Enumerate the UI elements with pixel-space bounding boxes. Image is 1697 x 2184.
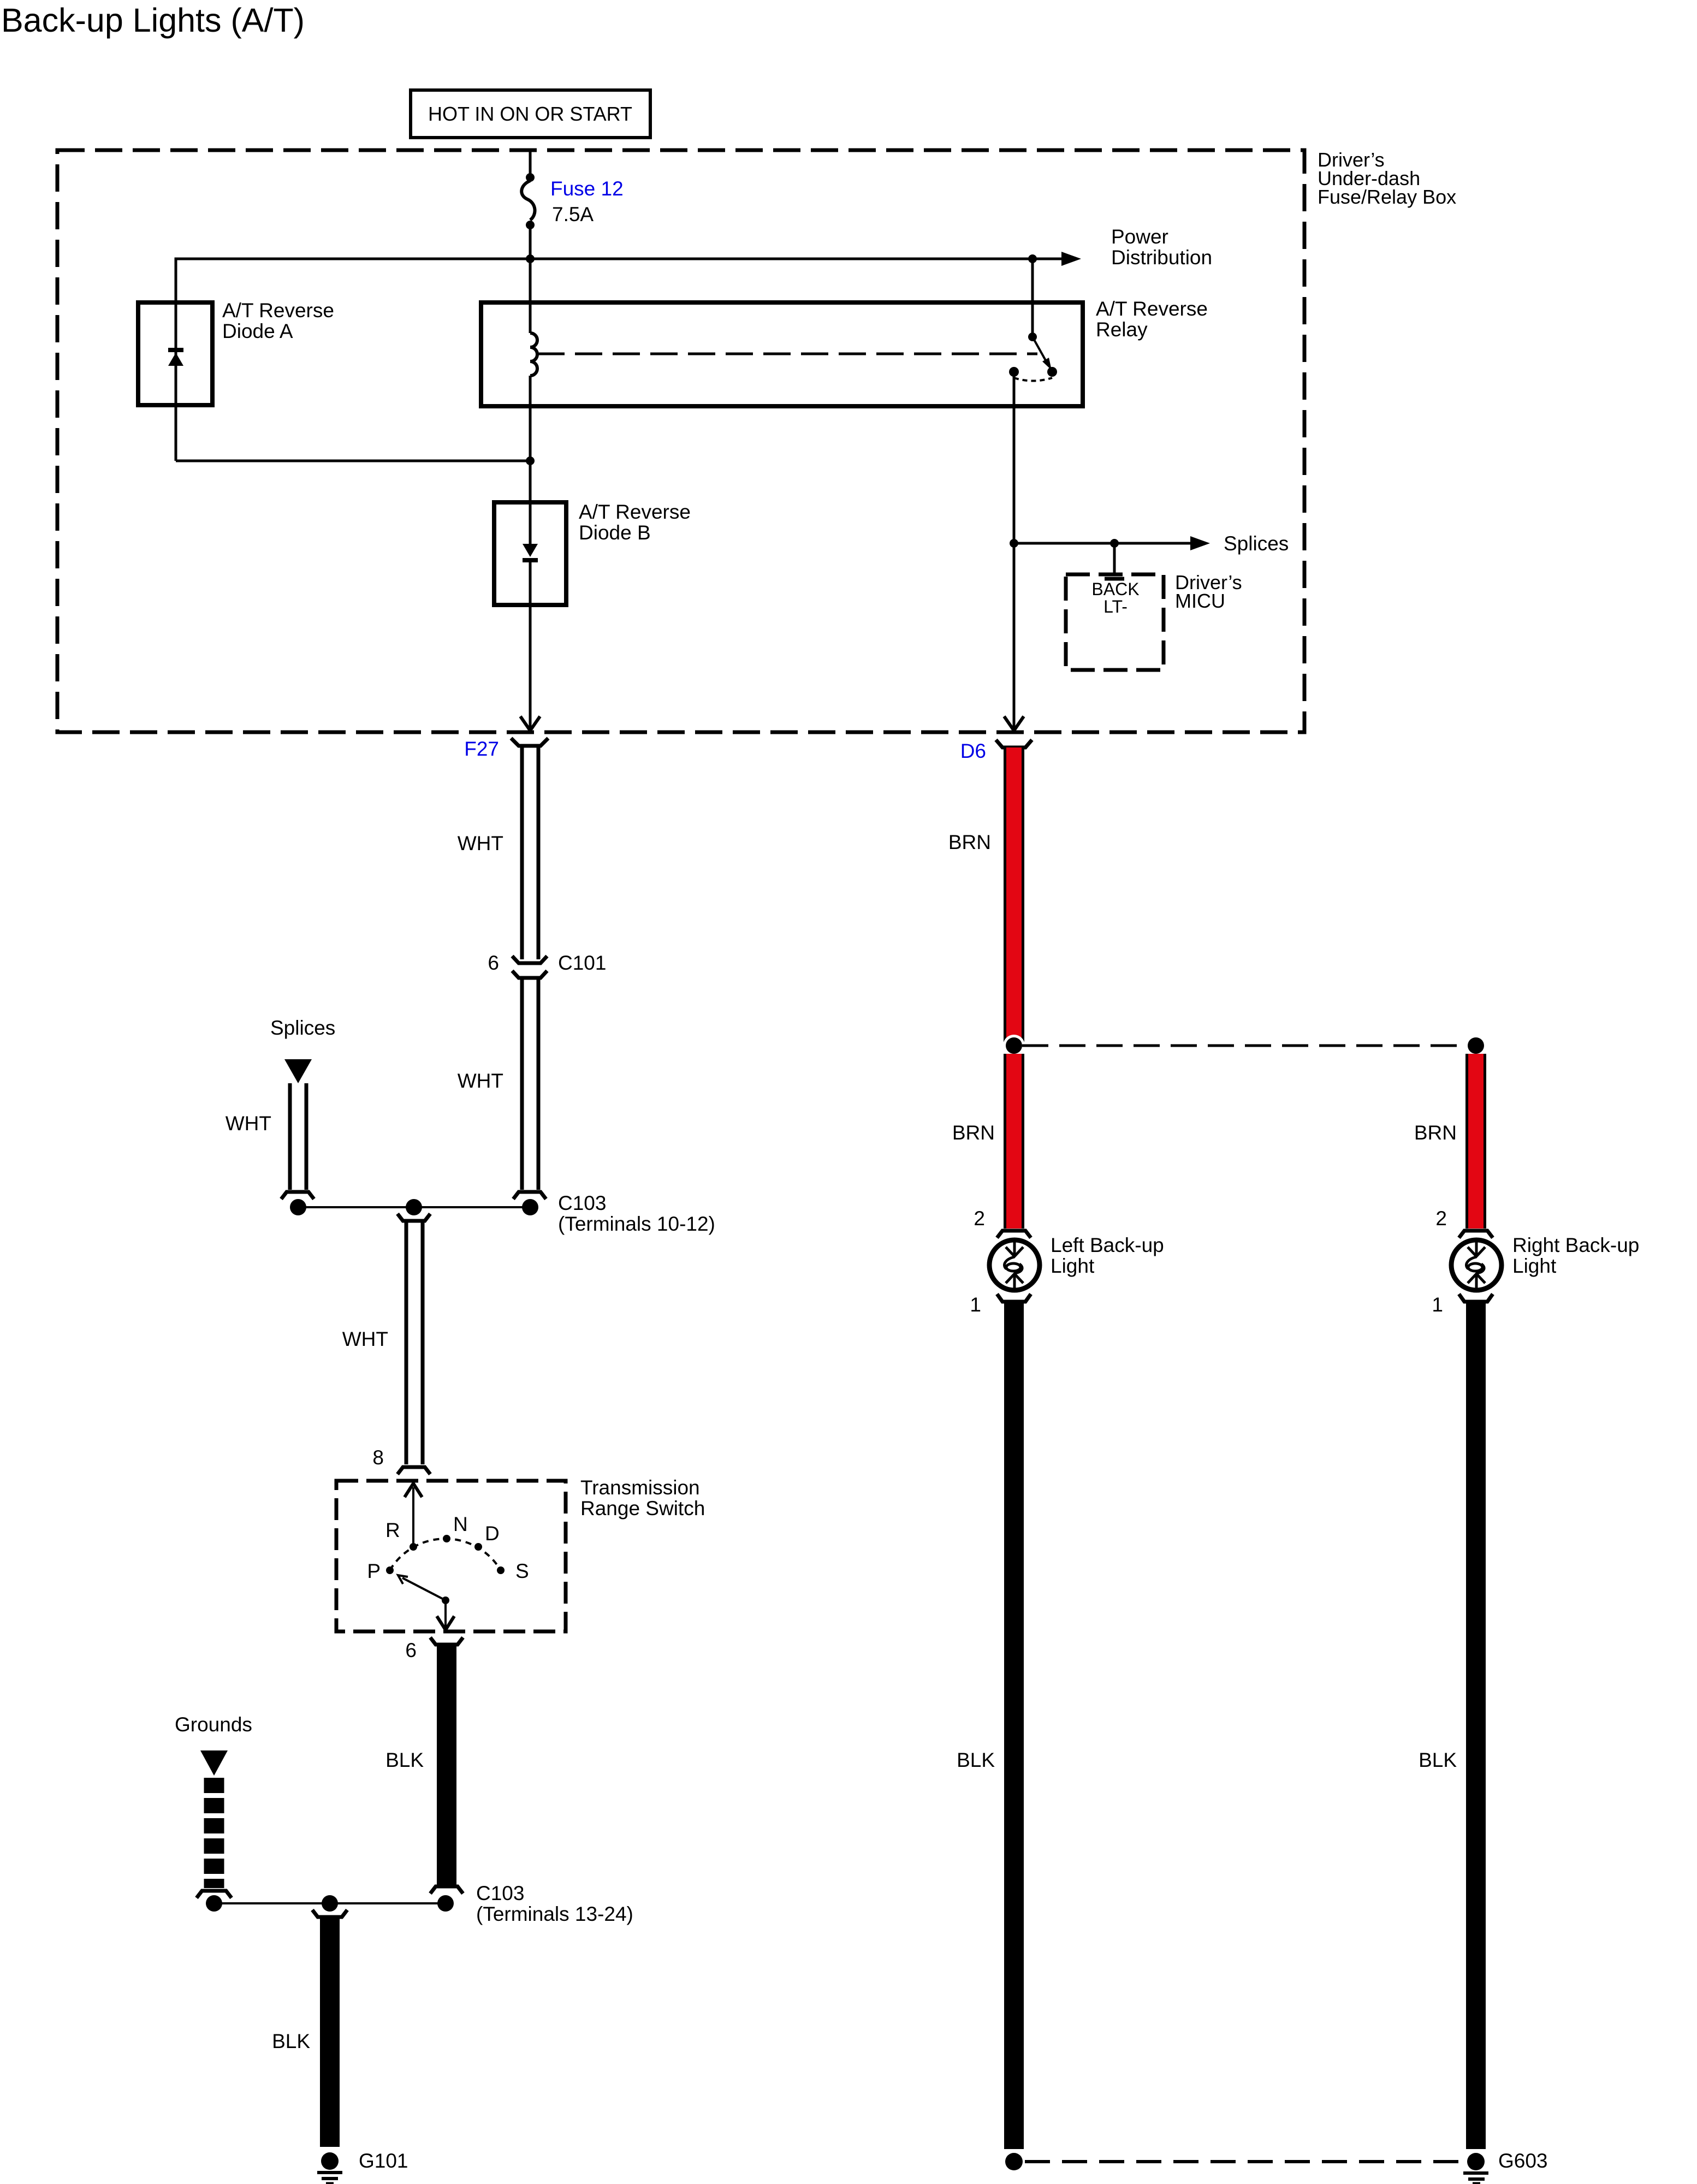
wire BLK right light to ground [1466, 1302, 1486, 2149]
svg-text:F27: F27 [464, 738, 499, 760]
relay coil [530, 333, 537, 376]
svg-text:8: 8 [372, 1446, 384, 1469]
connector F27 cap [511, 738, 548, 746]
left back-up light bulb [989, 1240, 1040, 1290]
connector cap left light bottom [997, 1294, 1031, 1302]
svg-text:Light: Light [1051, 1255, 1095, 1277]
switch detent dashed arc [390, 1539, 501, 1570]
svg-text:MICU: MICU [1175, 590, 1225, 612]
switch common down arrow [437, 1600, 454, 1630]
ground G603 [1463, 2150, 1488, 2183]
svg-text:Range Switch: Range Switch [580, 1497, 705, 1520]
svg-text:6: 6 [405, 1639, 417, 1661]
Driver's Under-dash Fuse/Relay Box (dashed box) [57, 150, 1304, 732]
svg-text:Distribution: Distribution [1111, 246, 1212, 269]
svg-text:WHT: WHT [342, 1328, 388, 1350]
A/T Reverse Diode B box [494, 502, 566, 605]
svg-text:N: N [453, 1513, 468, 1535]
label C103 (Terminals 13-24) [476, 1882, 633, 1925]
svg-text:1: 1 [970, 1293, 981, 1316]
node C103 left [290, 1199, 306, 1215]
dashed jumper to right light [1022, 1044, 1469, 1047]
ground G101 [317, 2152, 342, 2183]
svg-text:Fuse 12: Fuse 12 [550, 177, 624, 200]
svg-text:Right Back-up: Right Back-up [1512, 1234, 1639, 1256]
wire BLK to G101 [320, 1917, 340, 2147]
svg-text:BLK: BLK [1419, 1749, 1457, 1771]
wire C103 bus (terminals 10-12) [298, 1206, 530, 1208]
label Power Distribution [1111, 225, 1212, 269]
svg-text:A/T Reverse: A/T Reverse [222, 299, 334, 322]
svg-text:S: S [515, 1560, 529, 1582]
grounds arrow triangle [200, 1750, 228, 1776]
wire from HOT box into fuse box [529, 151, 532, 177]
svg-text:Back-up Lights (A/T): Back-up Lights (A/T) [1, 2, 305, 39]
connector pin 8 cap [397, 1467, 430, 1474]
dashed ground bus [1025, 2160, 1465, 2163]
label Driver's Under-dash Fuse/Relay Box [1318, 149, 1456, 208]
connector cap right light bottom [1459, 1294, 1493, 1302]
svg-text:A/T Reverse: A/T Reverse [579, 501, 691, 523]
connector cap right light top [1459, 1231, 1493, 1238]
svg-text:2: 2 [974, 1207, 985, 1230]
wire WHT F27 to C101 [522, 746, 538, 959]
svg-text:Fuse/Relay Box: Fuse/Relay Box [1318, 186, 1456, 208]
svg-text:(Terminals 13-24): (Terminals 13-24) [476, 1903, 633, 1925]
svg-text:HOT IN ON OR START: HOT IN ON OR START [428, 103, 632, 125]
svg-text:BRN: BRN [952, 1121, 995, 1144]
wire BRN right (red) [1465, 1054, 1486, 1228]
svg-text:WHT: WHT [458, 832, 503, 854]
label A/T Reverse Diode A [222, 299, 334, 342]
MICU pin terminal bar [1105, 577, 1124, 581]
wire diode A bottom horizontal [176, 460, 530, 462]
wire relay output down to D6 [1013, 372, 1016, 728]
relay armature [1033, 337, 1046, 360]
svg-text:BRN: BRN [1414, 1121, 1457, 1144]
wire BRN D6 to junction (red) [1004, 747, 1024, 1046]
svg-text:Relay: Relay [1096, 318, 1148, 341]
svg-text:D6: D6 [960, 740, 986, 762]
label Right Back-up Light [1512, 1234, 1639, 1277]
wire BLK switch to C103 [437, 1645, 456, 1885]
svg-text:Grounds: Grounds [175, 1713, 252, 1736]
wire diode B branch [529, 461, 532, 728]
A/T Reverse Diode A box [138, 302, 212, 405]
connector C101 upper half [512, 956, 547, 963]
svg-text:C103: C103 [558, 1192, 606, 1214]
wire power distribution horizontal [176, 259, 1061, 461]
svg-text:Transmission: Transmission [580, 1476, 700, 1499]
diode B symbol [523, 502, 538, 605]
relay coil-contact dashed link [537, 353, 1037, 355]
label Transmission Range Switch [580, 1476, 705, 1520]
wire power to relay common [1031, 259, 1034, 337]
svg-text:(Terminals 10-12): (Terminals 10-12) [558, 1213, 715, 1235]
arrow into D6 [1004, 716, 1024, 731]
svg-text:C101: C101 [558, 952, 606, 974]
node BRN junction right [1465, 1035, 1487, 1057]
switch position dots P R N D S [386, 1566, 394, 1574]
node relay contact NC [1009, 367, 1019, 377]
svg-text:7.5A: 7.5A [552, 203, 594, 225]
svg-text:Splices: Splices [270, 1017, 335, 1039]
svg-text:WHT: WHT [458, 1070, 503, 1092]
svg-text:D: D [485, 1522, 500, 1545]
label BACK LT- [1091, 579, 1139, 616]
wire WHT splice branch [290, 1083, 306, 1190]
connector cap grounds into C103 [197, 1891, 232, 1898]
splice arrow triangle [284, 1059, 312, 1083]
connector C101 lower half [512, 971, 547, 978]
svg-text:C103: C103 [476, 1882, 524, 1904]
svg-text:Splices: Splices [1224, 532, 1289, 555]
HOT IN ON OR START box [411, 90, 650, 138]
label C103 (Terminals 10-12) [558, 1192, 715, 1235]
svg-text:Light: Light [1512, 1255, 1557, 1277]
connector C103 end cap left [281, 1192, 314, 1199]
node C103 middle [406, 1199, 422, 1215]
arrow to Power Distribution [1061, 252, 1081, 266]
A/T Reverse Relay box [481, 302, 1083, 406]
svg-text:WHT: WHT [226, 1112, 271, 1135]
node fuse top [526, 173, 535, 182]
svg-text:BACK: BACK [1091, 579, 1139, 599]
relay contact dashed arc [1014, 378, 1052, 381]
connector cap below C103-2 middle [312, 1910, 347, 1917]
connector cap below C103 middle [397, 1214, 430, 1221]
svg-text:BLK: BLK [272, 2030, 310, 2052]
svg-text:BLK: BLK [385, 1749, 424, 1771]
wire MICU drop [1113, 543, 1116, 576]
wire splices horizontal [1014, 542, 1190, 545]
label A/T Reverse Relay [1096, 298, 1208, 341]
node diode loop junction [526, 456, 535, 465]
node C103-2 right [437, 1895, 454, 1912]
svg-text:BLK: BLK [957, 1749, 995, 1771]
Transmission Range Switch dashed box [336, 1481, 566, 1631]
svg-text:6: 6 [488, 952, 499, 974]
node relay branch junction [1028, 254, 1037, 263]
switch wiper [398, 1575, 449, 1604]
svg-text:2: 2 [1435, 1207, 1447, 1230]
node relay contact NO [1047, 367, 1057, 377]
svg-text:G101: G101 [359, 2150, 408, 2172]
svg-text:R: R [385, 1519, 400, 1541]
connector cap BLK into C103 [430, 1886, 463, 1894]
svg-text:Diode A: Diode A [222, 320, 293, 342]
node ground left [1002, 2150, 1025, 2173]
svg-text:Diode B: Diode B [579, 521, 651, 544]
node C103-2 middle [322, 1895, 338, 1912]
connector C103 end cap right [513, 1192, 546, 1199]
svg-text:LT-: LT- [1103, 597, 1128, 616]
connector D6 cap [996, 740, 1032, 747]
svg-text:Power: Power [1111, 225, 1168, 248]
node fuse/power junction [526, 254, 535, 263]
node relay common [1028, 333, 1037, 341]
arrow into F27 [520, 716, 540, 731]
switch R output wire with arrow up [405, 1483, 422, 1547]
Driver's MICU dashed box [1066, 574, 1164, 670]
connector cap left light top [997, 1231, 1031, 1238]
node splices junction [1010, 539, 1018, 548]
svg-text:A/T Reverse: A/T Reverse [1096, 298, 1208, 320]
wire WHT C101 to C103 [522, 978, 538, 1190]
node C103-2 left [206, 1895, 222, 1912]
arrow to Splices [1190, 536, 1210, 550]
label Left Back-up Light [1051, 1234, 1164, 1277]
node C103 right [522, 1199, 538, 1215]
node MICU branch [1110, 539, 1119, 548]
svg-text:P: P [367, 1560, 381, 1582]
label A/T Reverse Diode B [579, 501, 691, 544]
fuse F12 coil [521, 181, 535, 220]
svg-text:1: 1 [1432, 1293, 1443, 1316]
wire C103 bus (terminals 13-24) [214, 1902, 446, 1904]
label Driver's MICU [1175, 571, 1242, 612]
node BRN junction left [1003, 1035, 1025, 1057]
node fuse bottom [526, 221, 535, 229]
wire fuse to power distribution line [529, 225, 532, 333]
right back-up light bulb [1451, 1240, 1502, 1290]
wire BLK left light to ground [1004, 1302, 1024, 2149]
wire WHT C103 to switch [406, 1221, 423, 1464]
wire BRN junction to left light (red) [1004, 1054, 1024, 1228]
svg-text:BRN: BRN [948, 831, 991, 853]
connector pin 6 cap below switch [430, 1637, 463, 1645]
wire coil to diode junction [529, 376, 532, 461]
svg-text:G603: G603 [1498, 2150, 1548, 2172]
svg-text:Left Back-up: Left Back-up [1051, 1234, 1164, 1256]
diode A symbol [168, 348, 183, 366]
wire grounds segmented [204, 1778, 224, 1888]
